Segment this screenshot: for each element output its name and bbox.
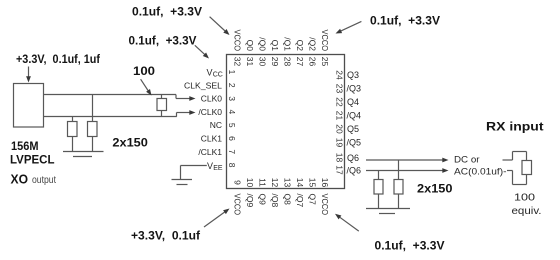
wire XO complement output — [44, 116, 177, 118]
arrow into XO box top — [26, 67, 31, 83]
svg-text:Q9: Q9 — [258, 194, 268, 206]
wire jog into CLK0 with arrow — [176, 95, 196, 101]
svg-text:22: 22 — [335, 97, 345, 107]
pin 8 label VEE — [207, 161, 223, 172]
svg-text:14: 14 — [295, 178, 305, 188]
wire /Q6 output with arrow — [366, 168, 449, 173]
ground at VEE — [172, 180, 193, 185]
svg-text:2: 2 — [227, 83, 237, 88]
svg-text:18: 18 — [335, 153, 345, 163]
svg-text:+3.3V, 0.1uf, 1uf: +3.3V, 0.1uf, 1uf — [16, 54, 100, 66]
pin numbers 9-16 bottom side — [233, 178, 331, 188]
svg-text:V: V — [207, 161, 213, 171]
svg-text:XO: XO — [11, 172, 29, 187]
ground for Q6 termination — [366, 209, 410, 214]
svg-text:Q1: Q1 — [270, 40, 280, 52]
svg-text:/Q4: /Q4 — [347, 111, 362, 121]
svg-text:25: 25 — [320, 57, 330, 67]
svg-text:CLK0: CLK0 — [201, 94, 223, 104]
svg-text:156M: 156M — [11, 141, 39, 153]
svg-text:Q7: Q7 — [308, 194, 318, 206]
svg-text:17: 17 — [335, 165, 345, 175]
svg-text:26: 26 — [308, 57, 318, 67]
svg-text:Q6: Q6 — [347, 153, 359, 163]
svg-text:24: 24 — [335, 70, 345, 80]
svg-text:6: 6 — [227, 136, 237, 141]
svg-text:11: 11 — [258, 178, 268, 187]
arrow to pin 25 VCCO — [336, 21, 362, 33]
svg-text:EE: EE — [213, 165, 223, 172]
svg-text:3: 3 — [227, 96, 237, 101]
svg-text:AC(0.01uf)-: AC(0.01uf)- — [454, 167, 507, 178]
svg-text:/Q7: /Q7 — [295, 194, 305, 208]
svg-text:28: 28 — [283, 57, 293, 67]
svg-text:Q5: Q5 — [347, 124, 359, 134]
svg-text:7: 7 — [227, 149, 237, 154]
arrow to pin 9 VCCO — [204, 209, 230, 228]
svg-text:29: 29 — [270, 57, 280, 67]
wire XO true output — [44, 94, 176, 96]
svg-text:/CLK1: /CLK1 — [198, 147, 222, 157]
svg-text:0.1uf, +3.3V: 0.1uf, +3.3V — [132, 7, 202, 19]
resistor 150 right on Q6 — [394, 160, 403, 209]
svg-text:/Q5: /Q5 — [347, 138, 362, 148]
svg-text:27: 27 — [295, 57, 305, 67]
svg-text:5: 5 — [227, 123, 237, 128]
svg-text:CC: CC — [213, 71, 223, 78]
svg-text:NC: NC — [210, 120, 222, 130]
svg-text:Q0: Q0 — [245, 40, 255, 52]
svg-text:DC or: DC or — [454, 155, 480, 166]
svg-text:/CLK0: /CLK0 — [198, 107, 222, 117]
svg-text:2x150: 2x150 — [417, 184, 453, 196]
svg-text:10: 10 — [245, 178, 255, 188]
svg-text:VCCO: VCCO — [233, 194, 243, 216]
svg-text:1: 1 — [227, 70, 237, 75]
svg-text:19: 19 — [335, 138, 345, 148]
svg-text:VCCO: VCCO — [233, 30, 243, 52]
svg-text:/Q9: /Q9 — [245, 194, 255, 208]
svg-text:/Q6: /Q6 — [347, 166, 362, 176]
arrow to pin 32 VCCO — [210, 17, 230, 35]
label 100 equiv. — [512, 192, 542, 218]
svg-text:/Q0: /Q0 — [258, 37, 268, 51]
svg-text:equiv.: equiv. — [512, 205, 542, 217]
arrow to VCC pin 1 — [195, 45, 209, 58]
svg-text:16: 16 — [320, 178, 330, 188]
svg-text:23: 23 — [335, 84, 345, 94]
pin numbers 1-8 left side — [227, 70, 237, 168]
svg-text:VCCO: VCCO — [320, 194, 330, 216]
pin numbers 24-17 right side — [335, 70, 345, 175]
svg-text:Q3: Q3 — [347, 70, 359, 80]
svg-text:+3.3V, 0.1uf: +3.3V, 0.1uf — [131, 231, 200, 243]
resistor 100 across CLK0 pair — [157, 95, 167, 117]
ground for XO termination — [63, 152, 104, 157]
svg-text:/Q8: /Q8 — [270, 194, 280, 208]
oscillator XO box — [14, 84, 44, 128]
svg-text:CLK_SEL: CLK_SEL — [184, 80, 222, 90]
svg-text:32: 32 — [233, 57, 243, 67]
svg-text:Q2: Q2 — [295, 40, 305, 52]
svg-text:31: 31 — [245, 57, 255, 67]
svg-text:VCCO: VCCO — [320, 30, 330, 52]
svg-text:/Q2: /Q2 — [308, 37, 318, 51]
svg-text:21: 21 — [335, 111, 345, 121]
svg-text:13: 13 — [283, 178, 293, 188]
svg-text:0.1uf, +3.3V: 0.1uf, +3.3V — [129, 36, 197, 48]
svg-text:Q8: Q8 — [283, 194, 293, 206]
svg-text:30: 30 — [258, 57, 268, 67]
svg-text:15: 15 — [308, 178, 318, 188]
resistor 150 left on /Q6 — [374, 171, 383, 209]
wire Q6 output with arrow — [366, 158, 449, 163]
svg-text:4: 4 — [227, 110, 237, 115]
svg-text:8: 8 — [227, 163, 237, 168]
resistor 150 right (on true line) — [88, 95, 98, 152]
wire jog into /CLK0 with arrow — [177, 110, 196, 116]
arrow from 100 label to resistor — [141, 79, 152, 95]
svg-text:0.1uf, +3.3V: 0.1uf, +3.3V — [370, 16, 440, 28]
IC U1 body — [227, 55, 345, 189]
pin numbers 32-25 top side — [233, 57, 331, 67]
svg-text:Q4: Q4 — [347, 97, 359, 107]
svg-text:9: 9 — [233, 180, 243, 185]
resistor 100 equivalent — [522, 161, 532, 175]
svg-text:RX input: RX input — [486, 122, 544, 134]
arrow to pin 16 VCCO — [335, 214, 359, 231]
RX termination network wires — [503, 152, 527, 185]
pin 1 label VCC — [207, 67, 223, 78]
svg-text:100: 100 — [514, 192, 535, 204]
svg-text:LVPECL: LVPECL — [10, 155, 55, 167]
resistor 150 left (on complement line) — [68, 117, 78, 152]
svg-text:0.1uf, +3.3V: 0.1uf, +3.3V — [375, 241, 445, 253]
svg-text:2x150: 2x150 — [112, 138, 147, 150]
svg-text:/Q3: /Q3 — [347, 84, 362, 94]
svg-text:20: 20 — [335, 124, 345, 134]
wire VEE to ground — [181, 166, 207, 180]
svg-text:CLK1: CLK1 — [201, 134, 223, 144]
label XO output — [11, 172, 57, 187]
svg-text:12: 12 — [270, 178, 280, 188]
svg-text:output: output — [32, 175, 56, 186]
svg-text:/Q1: /Q1 — [283, 37, 293, 51]
svg-text:V: V — [207, 67, 213, 77]
svg-text:100: 100 — [133, 66, 155, 78]
